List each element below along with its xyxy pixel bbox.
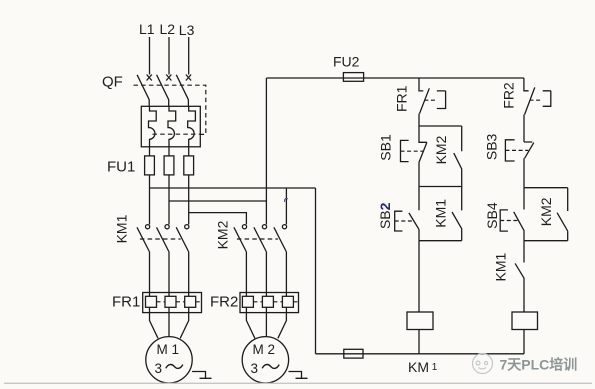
breaker QF thermal release 2 — [168, 106, 176, 147]
parallel rejoin SB1/KM2 — [419, 186, 462, 188]
fuse FU2 (bottom) — [344, 349, 363, 358]
wire control top rail — [266, 77, 524, 79]
aux contact KM2 label (right) — [538, 197, 554, 226]
svg-text:KM 1: KM 1 — [408, 359, 438, 375]
small hook mark — [285, 199, 288, 202]
coil KM1 — [407, 312, 433, 330]
FR1 heater 1 — [146, 293, 157, 313]
svg-text:KM1: KM1 — [492, 252, 508, 281]
FR2 heater 3 — [282, 293, 293, 313]
breaker QF pole 3 — [176, 75, 191, 107]
breaker QF label — [102, 74, 123, 91]
svg-text:M 2: M 2 — [253, 342, 276, 357]
interlock contact KM1 label — [492, 252, 508, 281]
coil KM2 — [512, 312, 538, 330]
contactor KM2 main pole 2 — [254, 225, 267, 293]
watermark logo — [473, 354, 493, 374]
breaker QF mechanical link (dashed) — [134, 85, 206, 134]
pushbutton SB2 (NO start) — [395, 187, 419, 241]
motor M1 leads — [150, 313, 189, 339]
pushbutton SB2 label — [377, 202, 393, 229]
FR1 heater 3 — [185, 293, 196, 313]
wire L3 drop — [188, 37, 190, 75]
fuse FU1-2 — [164, 156, 174, 175]
wire QF to FU1 phase 1 — [149, 147, 151, 156]
svg-text:FU1: FU1 — [107, 159, 135, 176]
relay contact FR2 (NC) label — [500, 82, 516, 109]
fuse FU1-1 — [145, 156, 155, 175]
svg-text:M 1: M 1 — [157, 342, 180, 357]
wire QF to FU1 phase 3 — [188, 147, 190, 156]
thermal relay FR1 label — [112, 294, 140, 311]
svg-text:L1: L1 — [139, 21, 155, 37]
FR2 heater 2 — [262, 293, 273, 313]
aux contact KM2 (NO) — [454, 126, 462, 187]
pushbutton SB1 label — [378, 134, 394, 161]
breaker QF thermal release 3 — [188, 106, 196, 147]
svg-text:FU2: FU2 — [333, 54, 360, 70]
wire KM2 pole2 feed drop — [265, 201, 267, 224]
svg-text:FR2: FR2 — [500, 82, 516, 109]
bottom rule — [4, 382, 592, 384]
fuse FU1 label — [107, 159, 135, 176]
FR2 dashed link — [253, 301, 297, 303]
FR1 heater 2 — [165, 293, 176, 313]
contactor KM1 main pole 2 — [157, 225, 170, 293]
node L1 — [139, 21, 155, 37]
fuse FU1-3 — [184, 156, 194, 175]
contactor KM2 link dashed — [237, 238, 278, 240]
motor M2 leads — [246, 313, 286, 339]
pushbutton SB4 (NO start) — [500, 188, 524, 241]
motor M1 — [146, 337, 192, 383]
relay contact FR1 (NC) — [419, 78, 446, 126]
fuse FU2 (top) — [343, 73, 363, 82]
pushbutton SB3 label — [484, 133, 500, 160]
contactor KM1 link dashed — [140, 238, 181, 240]
breaker QF thermal release 1 — [149, 106, 157, 147]
contactor KM1 label — [114, 214, 130, 243]
svg-text:SB2: SB2 — [377, 202, 393, 229]
aux contact KM1 (NO self-hold) — [452, 187, 462, 241]
breaker QF pole 2 — [157, 75, 172, 107]
wire L2 drop — [168, 37, 170, 75]
breaker QF pole 1 — [137, 75, 152, 107]
svg-text:KM1: KM1 — [114, 214, 130, 243]
breaker QF trip dashed line — [153, 133, 200, 135]
svg-text:FR1: FR1 — [112, 294, 140, 311]
contactor KM2 label — [215, 220, 231, 249]
ground at M1 — [192, 372, 211, 379]
wire L1 drop — [149, 37, 151, 75]
svg-text:SB1: SB1 — [378, 134, 394, 161]
wire control bottom rail drop — [315, 188, 317, 354]
relay contact FR1 (NC) label — [393, 85, 409, 112]
FR1 dashed link — [157, 301, 201, 303]
wire tap2 L2 to control top rail — [169, 200, 266, 202]
aux contact KM2 (NO self-hold right) — [557, 188, 568, 241]
wire control bottom bus — [316, 353, 525, 355]
wire phase1 down with tap junction — [149, 175, 151, 225]
contactor KM2 main pole 3 — [274, 225, 287, 293]
contactor KM2 main pole 1 — [234, 225, 247, 293]
svg-text:7天PLC培训: 7天PLC培训 — [500, 357, 578, 373]
wire phase2 down — [168, 175, 170, 225]
contactor KM1 main pole 3 — [176, 225, 189, 293]
coil KM1 label — [408, 359, 438, 375]
wire KM2 pole3 feed drop — [285, 188, 287, 224]
fuse FU2 label — [333, 54, 360, 70]
svg-text:FR2: FR2 — [210, 294, 238, 311]
relay contact FR2 (NC) — [524, 78, 551, 142]
wire phase3 down — [188, 175, 190, 225]
wire KM1 coil to bus — [418, 330, 420, 354]
parallel split SB4/KM2 — [524, 187, 568, 189]
contactor KM1 main pole 1 — [137, 225, 150, 293]
svg-text:3: 3 — [155, 361, 163, 376]
wire to KM1 coil — [418, 241, 420, 312]
svg-text:SB3: SB3 — [484, 133, 500, 160]
wire control left riser — [265, 78, 267, 201]
FR2 heater 1 — [242, 293, 253, 313]
pushbutton SB3 (NC stop) — [505, 140, 533, 188]
thermal relay FR1 box — [143, 293, 202, 313]
parallel rejoin SB4/KM2 — [524, 240, 568, 242]
parallel rejoin SB2/KM1 — [419, 240, 462, 242]
svg-text:QF: QF — [102, 74, 123, 91]
svg-text:KM2: KM2 — [215, 220, 231, 249]
svg-text:L3: L3 — [179, 22, 195, 38]
node L3 — [179, 22, 195, 38]
thermal relay FR2 box — [240, 293, 299, 313]
svg-text:SB4: SB4 — [484, 202, 500, 229]
pushbutton SB1 (NC stop) — [401, 126, 427, 187]
svg-text:3: 3 — [251, 361, 259, 376]
svg-text:L2: L2 — [160, 21, 176, 37]
node L2 — [160, 21, 176, 37]
svg-text:KM1: KM1 — [433, 199, 449, 228]
svg-text:KM2: KM2 — [538, 197, 554, 226]
svg-text:FR1: FR1 — [393, 85, 409, 112]
svg-text:KM2: KM2 — [433, 135, 449, 164]
watermark text — [500, 357, 578, 373]
motor M2 — [242, 337, 288, 383]
ground at M2 — [289, 372, 308, 379]
breaker QF trip box — [141, 106, 200, 147]
aux contact KM2 label — [433, 135, 449, 164]
wire KM2 coil to bus — [523, 330, 525, 354]
pushbutton SB4 label — [484, 202, 500, 229]
wire tap1 L1 to control bottom rail — [150, 187, 316, 189]
interlock contact KM1 — [515, 241, 524, 312]
parallel split SB1/KM2 — [419, 125, 462, 127]
wire QF to FU1 phase 2 — [168, 147, 170, 156]
aux contact KM1 label — [433, 199, 449, 228]
wire tap3 L3 to KM2 pole1 — [189, 213, 247, 225]
thermal relay FR2 label — [210, 294, 238, 311]
